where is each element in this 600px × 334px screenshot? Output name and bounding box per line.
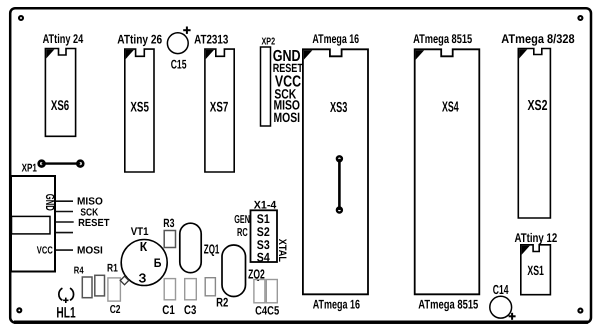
socket XS3 xyxy=(303,49,368,294)
svg-text:XS3: XS3 xyxy=(330,100,347,116)
socket XS1 xyxy=(521,245,551,295)
svg-text:S4: S4 xyxy=(257,250,270,264)
svg-text:MOSI: MOSI xyxy=(77,245,103,256)
ISP connector body xyxy=(11,176,55,272)
transistor VT1 xyxy=(120,226,167,286)
svg-text:GND: GND xyxy=(43,194,57,211)
svg-text:XS5: XS5 xyxy=(130,99,149,115)
jumper header X1-4 xyxy=(251,199,278,264)
capacitor C5 xyxy=(266,280,277,303)
mounting hole bottom-left xyxy=(17,308,21,312)
socket XS2 xyxy=(518,49,550,219)
wire RESET xyxy=(56,221,74,223)
svg-text:C14: C14 xyxy=(493,282,509,297)
svg-text:GEN: GEN xyxy=(234,214,250,226)
svg-text:ATmega 8515: ATmega 8515 xyxy=(413,32,472,46)
wire MOSI xyxy=(56,249,73,251)
svg-text:VCC: VCC xyxy=(37,245,53,256)
capacitor C3 xyxy=(184,279,196,317)
crystal ZQ1 xyxy=(180,223,220,273)
svg-text:ZQ1: ZQ1 xyxy=(204,242,220,257)
capacitor C4 xyxy=(254,280,265,303)
svg-text:ATtiny 12: ATtiny 12 xyxy=(515,231,558,245)
svg-text:ATmega 16: ATmega 16 xyxy=(313,297,360,311)
crystal ZQ2 xyxy=(222,245,265,297)
svg-text:RESET: RESET xyxy=(78,218,110,229)
ISP connector key slot xyxy=(12,216,51,234)
wire SCK xyxy=(56,211,73,213)
svg-text:XTAL: XTAL xyxy=(276,239,288,263)
capacitor C2 xyxy=(108,278,121,316)
svg-text:R1: R1 xyxy=(107,263,118,275)
svg-text:XP1: XP1 xyxy=(22,163,37,175)
svg-text:XS1: XS1 xyxy=(527,263,544,278)
svg-text:XP2: XP2 xyxy=(262,36,276,47)
svg-text:C2: C2 xyxy=(110,304,121,316)
svg-text:R2: R2 xyxy=(216,295,228,309)
svg-text:C1: C1 xyxy=(162,303,175,317)
svg-text:C4C5: C4C5 xyxy=(255,304,279,318)
wire pin4 xyxy=(56,232,73,234)
mounting hole bottom-right xyxy=(578,309,582,313)
resistor R4 xyxy=(74,266,92,298)
svg-text:К: К xyxy=(140,239,147,254)
svg-text:ATmega 16: ATmega 16 xyxy=(312,32,359,46)
capacitor C15 xyxy=(167,27,190,72)
svg-text:ATmega 8/328: ATmega 8/328 xyxy=(501,32,574,46)
svg-text:VT1: VT1 xyxy=(131,226,149,238)
capacitor C1 xyxy=(162,279,175,317)
socket XS6 xyxy=(45,49,75,137)
svg-text:C15: C15 xyxy=(171,58,187,72)
svg-text:ATmega 8515: ATmega 8515 xyxy=(418,297,478,311)
jumper in XS3 xyxy=(337,156,342,212)
svg-text:RC: RC xyxy=(237,227,248,239)
svg-text:S2: S2 xyxy=(257,225,270,239)
resistor R1 xyxy=(95,263,118,296)
header XP2 xyxy=(261,36,276,126)
svg-text:ATtiny 26: ATtiny 26 xyxy=(117,32,162,46)
mounting hole top-right xyxy=(578,16,582,20)
capacitor C14 xyxy=(490,282,516,320)
resistor R3 xyxy=(163,216,175,248)
svg-text:XS4: XS4 xyxy=(442,99,459,115)
jumper XP1 xyxy=(22,161,84,175)
resistor R2 xyxy=(205,278,228,310)
socket XS5 xyxy=(125,49,154,172)
board bottom edge thick line xyxy=(14,321,588,324)
svg-text:XS6: XS6 xyxy=(51,97,69,113)
svg-text:AT2313: AT2313 xyxy=(194,32,228,46)
svg-text:MISO: MISO xyxy=(77,197,103,208)
svg-text:XS2: XS2 xyxy=(528,98,548,114)
socket XS7 xyxy=(205,49,234,172)
svg-text:HL1: HL1 xyxy=(56,304,75,321)
svg-text:R3: R3 xyxy=(163,216,174,230)
svg-text:C3: C3 xyxy=(184,303,196,317)
svg-text:SCK: SCK xyxy=(80,207,98,218)
svg-text:З: З xyxy=(139,271,147,286)
svg-text:ATtiny 24: ATtiny 24 xyxy=(43,32,84,46)
svg-text:MOSI: MOSI xyxy=(274,110,301,125)
LED HL1 xyxy=(56,288,75,321)
svg-text:XS7: XS7 xyxy=(210,99,229,115)
svg-text:Б: Б xyxy=(154,256,162,270)
svg-text:R4: R4 xyxy=(74,266,84,277)
wire MISO xyxy=(56,200,73,202)
mounting hole top-left xyxy=(19,16,23,20)
socket XS4 xyxy=(415,49,480,294)
